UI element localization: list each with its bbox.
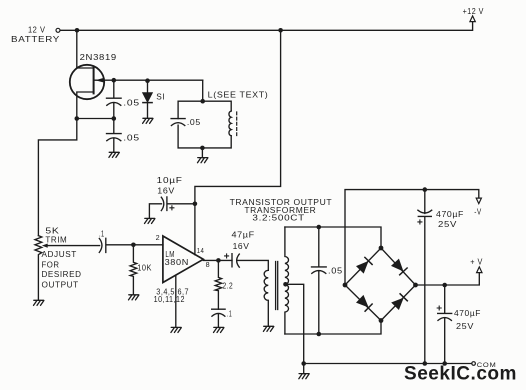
svg-text:47µF: 47µF <box>232 229 255 239</box>
battery terminal <box>56 28 60 32</box>
transformer T1 secondary coil <box>285 227 289 334</box>
svg-text:16V: 16V <box>157 186 175 196</box>
-V terminal <box>476 198 481 204</box>
capacitor C6 .1 zobel <box>212 309 225 327</box>
transformer T1 primary coil <box>264 270 268 326</box>
svg-text:+ V: + V <box>470 256 483 266</box>
ground U1 <box>171 327 181 332</box>
diode D4 bottom-right <box>392 299 403 310</box>
wire source to trimmer <box>38 119 76 236</box>
diode D1 top-left <box>357 262 368 273</box>
capacitor C2 .05 source bypass <box>107 119 122 153</box>
node gate/S1 <box>145 78 150 83</box>
capacitor C3 .05 tank <box>171 119 185 126</box>
resistor R2 10K <box>130 245 137 295</box>
wire pin 14 <box>194 204 196 255</box>
node pin8 <box>216 258 221 263</box>
wire +12V rail <box>60 22 472 30</box>
plus sign C5 <box>170 206 174 210</box>
ground 10K <box>129 295 139 300</box>
op-amp U1 LM380N <box>163 236 203 283</box>
wire drain lead <box>77 30 94 68</box>
svg-text:.05: .05 <box>123 133 140 143</box>
svg-text:3.2:500CT: 3.2:500CT <box>252 213 305 223</box>
bridge rectifier diamond <box>345 248 416 321</box>
svg-text:SeekIC.com: SeekIC.com <box>404 364 517 385</box>
capacitor C5 10uF bypass <box>149 197 195 219</box>
capacitor C10 470uF +V filter <box>438 285 452 364</box>
svg-text:2N3819: 2N3819 <box>80 52 117 62</box>
wire COM ground stem <box>303 364 305 374</box>
svg-text:10K: 10K <box>137 263 152 273</box>
plus sign C9 <box>418 220 422 224</box>
resistor R3 2.2 <box>215 260 221 309</box>
transformer T1 core <box>275 262 277 310</box>
wire gate node down to tank <box>202 80 204 101</box>
svg-text:ADJUST: ADJUST <box>42 249 78 259</box>
node pin14 <box>193 202 198 207</box>
transistor Q1 2N3819 JFET body <box>70 65 104 99</box>
svg-text:SI: SI <box>156 92 165 102</box>
wire AC bottom <box>285 321 381 335</box>
svg-text:2.2: 2.2 <box>223 281 234 291</box>
ground COM <box>299 374 309 379</box>
svg-text:14: 14 <box>197 246 205 255</box>
wire AC top <box>285 227 381 248</box>
wire center tap to COM rail <box>286 284 304 363</box>
+12V terminal <box>470 16 475 22</box>
ground tank <box>198 158 208 163</box>
ground 10uF <box>145 218 155 223</box>
node bridge right <box>413 283 418 288</box>
node AC top cap <box>317 225 322 230</box>
capacitor C4 .1 input coupling <box>99 238 163 252</box>
inductor L1 tank coil <box>229 111 231 136</box>
node -V cap <box>423 187 428 192</box>
svg-text:380N: 380N <box>165 257 189 267</box>
svg-text:BATTERY: BATTERY <box>11 34 60 44</box>
svg-text:.05: .05 <box>187 117 201 127</box>
+V terminal <box>477 267 482 273</box>
ground trimmer <box>34 300 44 305</box>
trimmer wiper arrow <box>42 244 48 248</box>
capacitor C9 470uF -V filter <box>418 190 432 364</box>
svg-text:470µF: 470µF <box>436 209 464 219</box>
svg-text:.1: .1 <box>227 308 232 318</box>
capacitor C1 .05 gate-source <box>107 80 122 118</box>
ground S1 <box>143 118 153 123</box>
wire U1 ground pins <box>175 275 177 327</box>
svg-text:10,11,12: 10,11,12 <box>154 294 185 304</box>
wire pin 8 output <box>203 259 232 261</box>
svg-text:16V: 16V <box>233 241 250 251</box>
wire COM rail <box>304 363 472 365</box>
node bridge left <box>343 283 348 288</box>
node gate/C1 <box>112 78 117 83</box>
svg-text:.05: .05 <box>328 266 343 276</box>
ground zobel <box>214 327 224 332</box>
wire source lead <box>77 92 94 119</box>
node AC bottom cap <box>317 332 322 337</box>
ground primary <box>263 326 273 331</box>
capacitor C7 47uF coupling <box>232 254 268 271</box>
svg-text:DESIRED: DESIRED <box>42 269 82 279</box>
node tank top <box>200 99 205 104</box>
node +12V feed junction <box>278 28 283 33</box>
svg-text:L(SEE TEXT): L(SEE TEXT) <box>208 90 269 100</box>
svg-text:.05: .05 <box>123 98 140 108</box>
wire -V rail <box>345 190 479 285</box>
diode S1 <box>147 81 149 93</box>
tank circuit box wires <box>178 101 231 118</box>
svg-text:.1: .1 <box>99 229 105 239</box>
svg-text:10µF: 10µF <box>157 175 183 185</box>
svg-text:8: 8 <box>206 260 211 269</box>
inductor L1 core dashed <box>236 112 238 136</box>
node COM C9 <box>423 361 428 366</box>
svg-text:470µF: 470µF <box>454 308 481 318</box>
svg-text:25V: 25V <box>438 219 457 229</box>
plus sign C10 <box>437 306 441 310</box>
node C1/C2 junction <box>112 116 117 121</box>
node bridge top <box>379 246 384 251</box>
transistor Q1 gate lead with arrow <box>95 79 203 81</box>
svg-text:TRIM: TRIM <box>45 235 67 245</box>
node +V cap <box>442 283 447 288</box>
transistor Q1 channel bar <box>93 67 95 94</box>
capacitor C8 .05 snubber <box>312 227 327 334</box>
plus sign C7 <box>225 254 229 258</box>
diode D2 top-right <box>392 260 403 271</box>
node tank bottom <box>200 146 205 151</box>
node battery junction <box>75 28 80 33</box>
node center tap <box>283 282 288 287</box>
svg-text:OUTPUT: OUTPUT <box>42 280 79 290</box>
diode D3 bottom-left <box>357 296 368 307</box>
node bridge bottom <box>379 318 384 323</box>
svg-text:25V: 25V <box>456 321 474 331</box>
resistor R1 5K trimmer <box>35 236 42 301</box>
node pin2 junction <box>131 243 136 248</box>
wire +12V feed to pin 14 node <box>195 30 281 204</box>
node COM C10 <box>442 361 447 366</box>
node source junction A <box>75 116 80 121</box>
wire +V <box>416 273 480 285</box>
COM terminal <box>472 362 476 366</box>
svg-text:-V: -V <box>474 206 481 216</box>
svg-text:+12 V: +12 V <box>463 6 484 16</box>
svg-text:2: 2 <box>156 233 161 242</box>
wire tank bottom to ground <box>201 148 203 158</box>
ground C2 <box>109 152 119 157</box>
wire source junction <box>77 118 114 120</box>
node COM ground <box>301 361 306 366</box>
